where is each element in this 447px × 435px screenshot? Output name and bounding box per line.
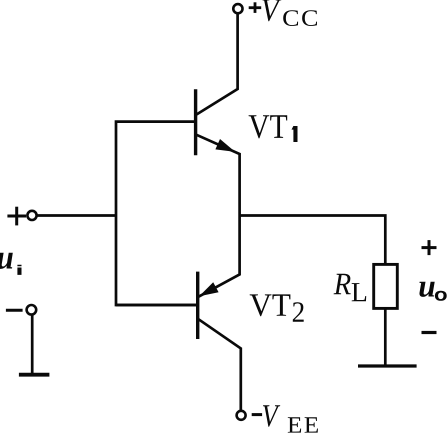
wire RL bottom bbox=[384, 308, 387, 365]
label VCC CC bbox=[283, 10, 317, 26]
wire VT1 base + left rail + VT2 base bbox=[116, 122, 198, 305]
wire input ground stem bbox=[31, 315, 34, 374]
label VT1 VT bbox=[249, 115, 288, 138]
terminal input - bbox=[27, 305, 37, 315]
wire VT2 base bbox=[116, 304, 198, 307]
terminal input + bbox=[27, 211, 36, 220]
label plus input bbox=[7, 207, 26, 226]
label RL L bbox=[352, 283, 367, 301]
label plus VCC bbox=[249, 2, 262, 13]
VT1 emitter arrow bbox=[215, 139, 235, 152]
label plus output bbox=[422, 240, 437, 255]
label VT2 2 bbox=[293, 302, 304, 322]
label uo o bbox=[435, 291, 447, 301]
transistor VT1 emitter + rail + VT2 emitter bbox=[197, 135, 240, 297]
label VT2 VT bbox=[250, 294, 291, 316]
wire VCC vertical + VT1 collector bbox=[197, 14, 238, 115]
transistor VT2 base bar bbox=[196, 272, 199, 339]
label RL R bbox=[334, 274, 351, 294]
label minus VEE bbox=[252, 413, 262, 416]
label VT1 subscript 1 bbox=[292, 126, 298, 142]
terminal +VCC bbox=[233, 4, 242, 13]
label ui u bbox=[0, 253, 13, 269]
ground right bbox=[358, 364, 417, 367]
label uo u bbox=[419, 282, 434, 297]
terminal -VEE bbox=[237, 411, 246, 420]
resistor RL body bbox=[374, 264, 398, 308]
VT2 emitter arrow bbox=[199, 282, 218, 296]
label minus input bbox=[6, 309, 23, 312]
label VEE V bbox=[263, 405, 280, 427]
ground left bbox=[19, 373, 50, 377]
transistor VT1 base bar bbox=[194, 89, 197, 155]
wire output + RL top bbox=[240, 216, 386, 265]
label ui i bbox=[17, 265, 21, 275]
label VCC V bbox=[262, 0, 281, 21]
wire input bbox=[37, 214, 116, 217]
label VEE EE bbox=[288, 417, 318, 432]
label minus output bbox=[422, 331, 437, 334]
transistor VT2 collector + wire to VEE bbox=[198, 319, 241, 411]
